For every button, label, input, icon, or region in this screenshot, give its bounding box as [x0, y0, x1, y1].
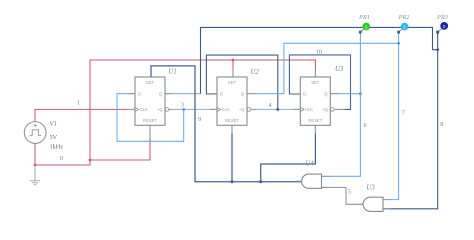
svg-text:U3: U3 — [367, 185, 376, 192]
wire node 4 (U2 ~Q to U3 CLK and bracket to U2 D) — [257, 108, 301, 110]
wire U3 D-bracket (U3 ~Q to U3 D) — [289, 55, 350, 110]
svg-text:CLK: CLK — [222, 107, 230, 112]
junction net 10/7 — [397, 42, 400, 45]
ground — [30, 165, 40, 185]
svg-text:9: 9 — [198, 116, 201, 123]
flip-flop U1 — [128, 77, 172, 139]
junction net 6 at U3 Q — [359, 92, 362, 95]
wire node 3 (U1 ~Q to U2 CLK and back to U1 D) — [172, 108, 218, 110]
probe PR3 — [436, 22, 448, 34]
svg-text:5: 5 — [348, 189, 351, 196]
svg-text:D: D — [303, 92, 306, 97]
probe PR1 — [359, 23, 370, 34]
junction node 4 — [276, 108, 279, 111]
svg-text:D: D — [220, 92, 223, 97]
junction node 0 at x90 — [89, 159, 92, 162]
wire net 8 (PR3 down to U3 gate lower input) — [383, 32, 438, 209]
svg-text:6: 6 — [364, 122, 367, 129]
wire node 1 (V1 top to U1 CLK) — [35, 109, 128, 121]
svg-text:PR2: PR2 — [398, 14, 410, 21]
svg-text:1: 1 — [77, 99, 80, 106]
svg-text:SET: SET — [146, 80, 155, 85]
junction net 9 at U3 RESET branch — [259, 180, 262, 183]
svg-text:V1: V1 — [50, 121, 58, 128]
svg-text:PR1: PR1 — [358, 14, 370, 21]
flip-flop U2 — [210, 70, 257, 134]
svg-text:~Q: ~Q — [239, 107, 245, 112]
wire node 2 (U1 Q up and across to PR3 jog) — [172, 93, 201, 95]
voltage source V1 — [24, 122, 46, 144]
svg-text:U4: U4 — [306, 160, 315, 167]
svg-text:~Q: ~Q — [157, 107, 163, 112]
flip-flop U3 — [293, 70, 344, 134]
svg-text:RESET: RESET — [308, 118, 322, 123]
probe PR2 — [397, 23, 408, 34]
junction node 0 at U2 SET — [232, 59, 235, 62]
svg-text:1: 1 — [365, 25, 368, 30]
svg-text:1kHz: 1kHz — [50, 144, 64, 151]
svg-text:1: 1 — [403, 25, 406, 30]
wire net 6 (U3 Q, PR1, down to U4 upper input) — [331, 32, 360, 176]
svg-text:SET: SET — [228, 80, 237, 85]
wire net 7 (PR2 down to U3 gate upper input) — [391, 32, 399, 200]
wire node 0 (ground net: V1 bottom, ground, U1 RESET, U2 SET, U3 SET) — [35, 60, 315, 165]
svg-text:PR3: PR3 — [436, 14, 448, 21]
wire net 10 (U2 Q up and across to PR2) — [254, 43, 399, 93]
svg-text:U1: U1 — [169, 69, 177, 76]
svg-text:10: 10 — [316, 49, 322, 56]
svg-text:8: 8 — [440, 121, 443, 128]
wire net 5 (U3 gate output to U4 lower input) — [322, 187, 364, 204]
junction net 8 — [436, 48, 439, 51]
svg-text:RESET: RESET — [143, 118, 157, 123]
svg-text:0: 0 — [443, 24, 446, 29]
svg-text:0: 0 — [60, 155, 63, 162]
svg-text:U2: U2 — [251, 69, 260, 76]
junction net 9 at U2 RESET — [231, 180, 234, 183]
svg-text:CLK: CLK — [140, 107, 148, 112]
wire net 9 (U4 output to U1 SET, U2 RESET, U3 RESET) — [151, 66, 315, 182]
junction node 0 at V1 bottom — [34, 164, 37, 167]
svg-text:SET: SET — [311, 80, 320, 85]
svg-text:3: 3 — [181, 101, 184, 108]
junction node 3 — [182, 108, 185, 111]
svg-text:CLK: CLK — [305, 107, 313, 112]
and-gate U3 (bottom, output facing left) — [363, 197, 391, 211]
svg-text:U3: U3 — [335, 66, 344, 73]
svg-text:RESET: RESET — [225, 118, 239, 123]
svg-text:D: D — [138, 92, 141, 97]
svg-text:7: 7 — [402, 110, 405, 117]
svg-text:5V: 5V — [50, 134, 58, 141]
svg-text:~Q: ~Q — [322, 107, 328, 112]
and-gate U4 (output facing left) — [296, 174, 331, 188]
